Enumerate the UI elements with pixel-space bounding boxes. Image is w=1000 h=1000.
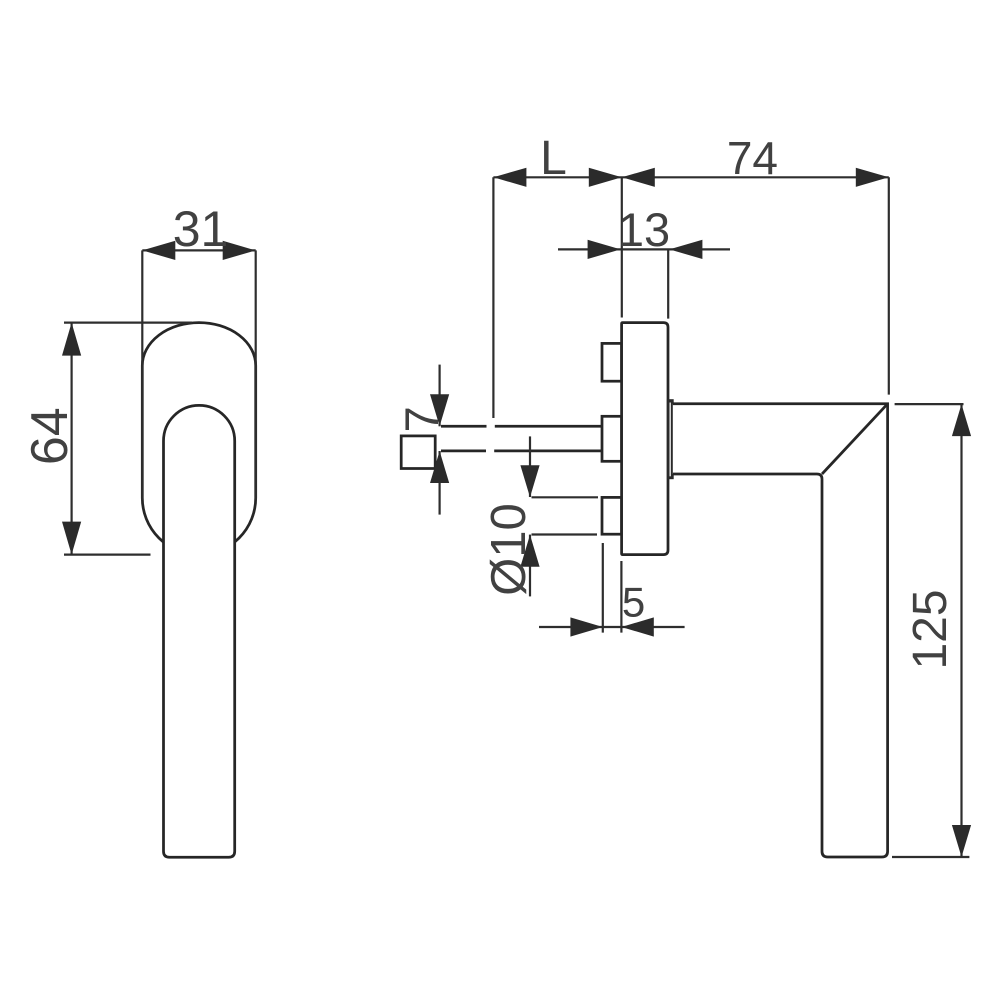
rosette boss middle	[602, 416, 622, 461]
rosette boss top	[602, 343, 622, 381]
dim diameter 10 dimension line upper segment	[529, 436, 531, 497]
dim 74 extension line right	[888, 177, 890, 394]
dim 125 arrow bottom	[952, 825, 971, 857]
dim 5 extension line right	[620, 561, 622, 633]
side view spindle bottom edge left segment	[441, 450, 486, 453]
dim 5 arrow left	[570, 617, 602, 636]
dim 31 dimension line	[142, 249, 255, 251]
dim L extension line left	[492, 177, 494, 418]
svg-text:5: 5	[622, 579, 645, 626]
svg-text:74: 74	[727, 132, 778, 184]
dim 13 arrow left	[588, 240, 621, 259]
svg-text:L: L	[540, 132, 567, 185]
dim 5 arrow right	[621, 617, 653, 636]
svg-text:31: 31	[173, 201, 229, 257]
dim 64 arrow bottom	[62, 522, 81, 555]
dim 125 extension line bottom	[892, 856, 969, 858]
dim L/74 shared dimension line	[493, 176, 888, 178]
side view spindle bottom edge right segment	[494, 450, 603, 453]
dim 125 dimension line	[960, 404, 962, 857]
dim L arrow right	[589, 168, 622, 187]
dim 64 arrow top	[62, 323, 81, 356]
dim 5 extension line left	[602, 543, 604, 633]
side view spindle top edge right segment	[495, 425, 603, 428]
dim 13 dimension line	[558, 248, 730, 250]
dim L/74 shared extension line at rosette back face	[621, 177, 623, 317]
rosette boss bottom	[602, 497, 622, 534]
dim diameter 10 extension line bottom	[532, 533, 598, 535]
dim 64 extension line top	[64, 322, 192, 324]
dim 31 arrow right	[223, 241, 256, 260]
svg-text:125: 125	[904, 589, 957, 669]
spindle square end view	[401, 436, 435, 469]
handle flange highlight slit	[669, 403, 671, 477]
side view spindle top edge left segment	[441, 425, 487, 428]
dim 125 extension line top	[895, 403, 964, 405]
dim 13 extension line right	[667, 249, 669, 318]
dim diameter 10 arrow lower	[520, 535, 539, 567]
dim diameter 10 extension line top	[532, 496, 599, 498]
front view rosette (stadium outline, flatter elliptical top cap)	[142, 323, 255, 555]
front view handle grip (U-shaped neck and bar)	[164, 405, 235, 857]
dim 31 arrow left	[142, 241, 175, 260]
dim 7 arrow upper	[430, 394, 449, 426]
dim 13 arrow right	[669, 240, 702, 259]
dim L arrow left	[493, 168, 526, 187]
dim 31 extension line right	[255, 250, 257, 500]
dim 64 extension line bottom	[64, 553, 151, 555]
dim diameter 10 dimension line lower segment	[529, 535, 531, 597]
svg-text:13: 13	[618, 203, 670, 256]
svg-text:64: 64	[21, 407, 79, 465]
dim 74 arrow right	[856, 168, 889, 187]
svg-text:7: 7	[395, 406, 448, 432]
dim 125 arrow top	[952, 404, 971, 436]
dim 7 arrow lower	[430, 451, 449, 483]
handle flange at rosette face	[667, 399, 674, 479]
dim 74 arrow left	[622, 168, 655, 187]
side view handle grip (L-shape)	[673, 404, 888, 857]
dim diameter 10 arrow upper	[520, 465, 539, 497]
handle miter joint diagonal	[822, 404, 888, 474]
dim 7 dimension line lower segment	[439, 451, 441, 515]
dim 31 extension line left	[141, 250, 143, 500]
dim 64 dimension line	[70, 323, 72, 555]
dim 7 dimension line upper segment	[439, 365, 441, 427]
svg-text:Ø10: Ø10	[482, 503, 536, 596]
side view rosette body	[622, 323, 668, 555]
dim 5 dimension line	[539, 626, 685, 628]
